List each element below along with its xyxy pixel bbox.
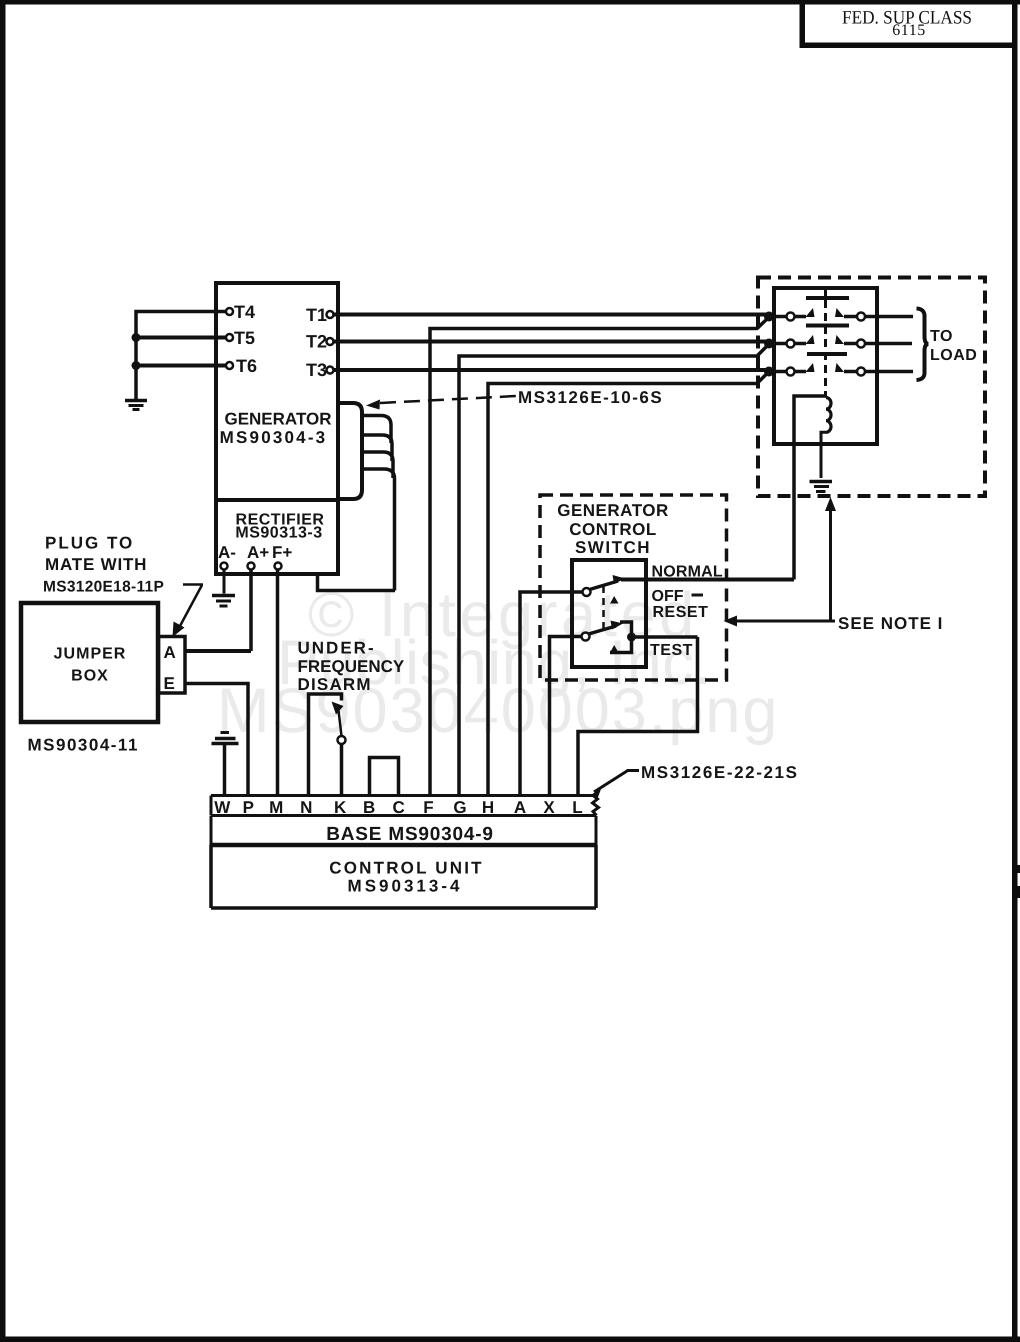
svg-text:T5: T5 [234,328,255,348]
svg-text:MATE WITH: MATE WITH [45,555,147,574]
svg-text:JUMPER: JUMPER [54,646,127,663]
svg-text:A: A [164,643,176,662]
svg-text:CONTROL: CONTROL [569,520,657,539]
svg-text:UNDER-: UNDER- [298,639,376,658]
svg-text:L: L [572,798,582,817]
svg-text:GENERATOR: GENERATOR [557,501,669,520]
svg-text:A-: A- [218,543,236,562]
svg-text:C: C [392,798,404,817]
svg-text:TEST: TEST [650,642,693,659]
svg-text:MS90304-3: MS90304-3 [220,428,328,447]
svg-text:MS90313-3: MS90313-3 [235,525,322,542]
svg-text:MS3126E-10-6S: MS3126E-10-6S [518,388,663,407]
svg-text:SWITCH: SWITCH [575,538,651,557]
svg-text:N: N [300,798,312,817]
svg-text:B: B [363,798,375,817]
svg-text:SEE NOTE I: SEE NOTE I [838,614,943,633]
svg-text:BASE MS90304-9: BASE MS90304-9 [326,824,494,845]
svg-text:X: X [543,798,555,817]
svg-text:K: K [334,798,347,817]
svg-text:LOAD: LOAD [930,347,977,364]
svg-text:A+: A+ [247,543,269,562]
svg-text:P: P [243,798,254,817]
svg-text:F+: F+ [272,543,292,562]
svg-text:T3: T3 [306,360,327,380]
svg-text:H: H [482,798,494,817]
svg-text:TO: TO [930,328,953,345]
svg-text:MS90304-11: MS90304-11 [28,736,139,755]
svg-text:FREQUENCY: FREQUENCY [298,657,405,676]
svg-text:OFF: OFF [652,588,684,605]
svg-text:MS3126E-22-21S: MS3126E-22-21S [641,763,799,782]
svg-text:BOX: BOX [71,668,109,685]
svg-text:T4: T4 [234,302,255,322]
svg-text:F: F [423,798,433,817]
svg-text:MS90313-4: MS90313-4 [348,877,463,896]
svg-text:E: E [164,674,175,693]
svg-text:W: W [214,798,231,817]
svg-text:PLUG TO: PLUG TO [45,534,134,553]
svg-text:A: A [514,798,526,817]
svg-text:M: M [269,798,283,817]
svg-text:G: G [453,798,466,817]
svg-text:DISARM: DISARM [298,675,372,694]
svg-text:MS3120E18-11P: MS3120E18-11P [43,579,164,596]
svg-text:RESET: RESET [653,604,709,621]
svg-text:NORMAL: NORMAL [652,564,723,581]
svg-text:CONTROL UNIT: CONTROL UNIT [329,859,484,878]
svg-text:T6: T6 [236,356,257,376]
svg-text:GENERATOR: GENERATOR [224,410,331,429]
svg-text:T2: T2 [306,332,327,352]
svg-text:T1: T1 [306,305,327,325]
svg-text:6115: 6115 [892,22,925,39]
